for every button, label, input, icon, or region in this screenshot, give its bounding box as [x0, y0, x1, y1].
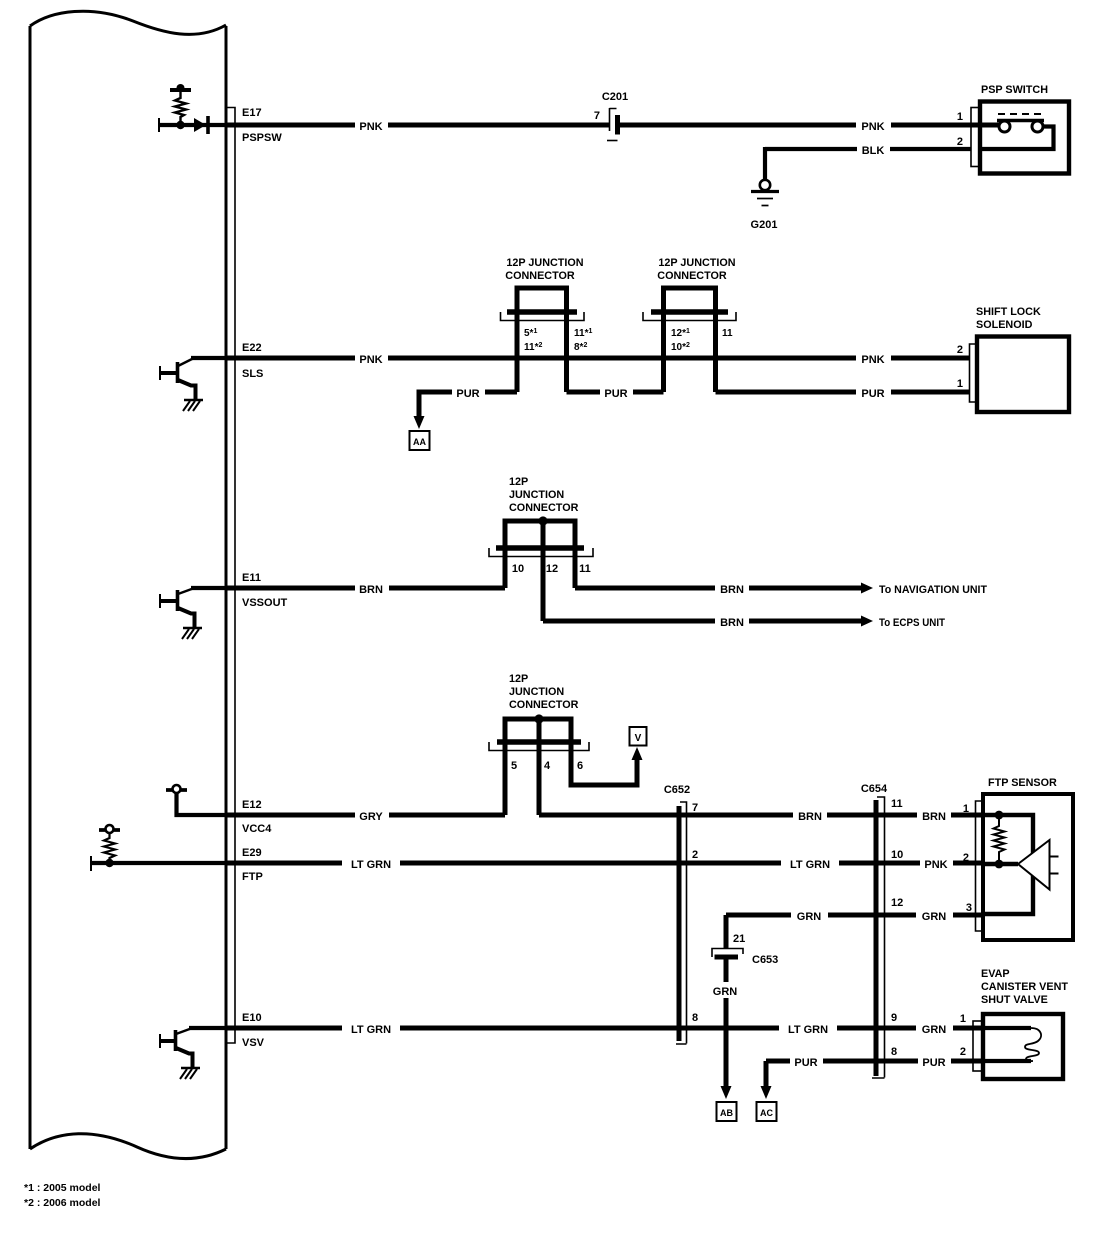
FTP internal junction dot 2 [995, 860, 1004, 869]
svg-text:BRN: BRN [720, 584, 744, 596]
label GRN (row6 right) [916, 1020, 953, 1036]
label PUR (right) [918, 1053, 951, 1069]
label BLK [857, 141, 890, 157]
ground stem G201 [763, 147, 767, 180]
arrowhead to AB [721, 1086, 732, 1099]
12P junction connector J1 staple [517, 288, 567, 392]
label BRN (ecps) [715, 613, 749, 629]
label PUR (AA branch) [452, 384, 485, 400]
svg-text:BRN: BRN [359, 584, 383, 596]
wire PUR J2 right leg to solenoid pin 1 [716, 390, 971, 395]
J4 junction dot [534, 714, 543, 723]
svg-text:C653: C653 [752, 954, 778, 966]
FTP sensor bracket [976, 801, 984, 931]
svg-text:6: 6 [577, 760, 583, 772]
svg-text:1: 1 [957, 111, 963, 123]
svg-text:E10: E10 [242, 1012, 262, 1024]
internal wire E12 [177, 792, 227, 815]
svg-text:CONNECTOR: CONNECTOR [509, 502, 579, 514]
svg-text:BRN: BRN [798, 811, 822, 823]
wire BRN to navigation unit [575, 586, 862, 591]
transistor Q-E11 emitter [178, 608, 195, 628]
label GRN (vertical) [707, 982, 744, 998]
FTP internal junction dot 1 [995, 811, 1004, 820]
12P junction connector J3 staple [505, 521, 575, 588]
ground (E10 emitter) [181, 1067, 200, 1069]
E29 wire tick [90, 856, 92, 871]
svg-text:C654: C654 [861, 783, 888, 795]
svg-text:VSSOUT: VSSOUT [242, 597, 288, 609]
arrowhead navigation [861, 583, 873, 594]
svg-text:GRY: GRY [359, 811, 383, 823]
connector C652 bracket [676, 802, 687, 1044]
arrowhead to V [632, 747, 643, 760]
VCC source circle (E29) [106, 825, 114, 833]
svg-text:E17: E17 [242, 107, 262, 119]
diode (to E17 pin) [194, 118, 206, 132]
connector C653 [712, 949, 743, 958]
internal wire E22 [191, 356, 226, 360]
wire E11 BRN to J3 pin 10 [226, 586, 505, 591]
wire BRN to ECPS unit [543, 619, 862, 624]
svg-text:EVAP: EVAP [981, 968, 1010, 980]
label GRN (right) [916, 907, 953, 923]
svg-text:BRN: BRN [922, 811, 946, 823]
connector C654 bracket [872, 797, 885, 1078]
svg-text:PNK: PNK [359, 354, 382, 366]
svg-text:GRN: GRN [922, 1024, 947, 1036]
wire BLK PSP pin2 to ground [765, 147, 971, 151]
svg-text:C652: C652 [664, 784, 690, 796]
PSP switch box [980, 102, 1069, 174]
J4 center leg [537, 717, 542, 815]
ground eyelet G201 [760, 180, 770, 190]
svg-text:12: 12 [546, 563, 558, 575]
svg-text:12P JUNCTION: 12P JUNCTION [658, 257, 735, 269]
wire PUR vertical to AC [764, 1061, 769, 1087]
svg-text:CONNECTOR: CONNECTOR [505, 270, 575, 282]
svg-text:PNK: PNK [861, 354, 884, 366]
svg-text:PUR: PUR [861, 388, 884, 400]
transistor Q-E22 collector [178, 359, 193, 367]
label LT GRN (row6 left) [342, 1020, 400, 1036]
arrowhead ECPS [861, 616, 873, 627]
node V box [630, 727, 647, 746]
label PNK (row1 left) [355, 117, 388, 133]
svg-text:8: 8 [692, 1012, 698, 1024]
wire C201 to PSP switch pin 1 [618, 123, 1001, 128]
label PUR (row2 right) [856, 384, 891, 400]
node AB box [717, 1102, 737, 1121]
svg-text:2: 2 [692, 849, 698, 861]
EVAP solenoid coil [1025, 1028, 1041, 1061]
transistor Q-E10 base tick [159, 1034, 161, 1048]
svg-text:JUNCTION: JUNCTION [509, 686, 564, 698]
label BRN (row4 right) [917, 807, 951, 823]
svg-text:9: 9 [891, 1012, 897, 1024]
svg-text:1: 1 [957, 378, 963, 390]
transistor Q-E11 base tick [159, 594, 161, 608]
svg-text:PUR: PUR [794, 1057, 817, 1069]
ECM/PCM module box (torn-edge outline) [30, 11, 226, 1158]
svg-text:*2 : 2006 model: *2 : 2006 model [24, 1197, 101, 1209]
svg-text:CONNECTOR: CONNECTOR [509, 699, 579, 711]
VCC source T-bar (E12) [166, 788, 187, 792]
svg-text:1: 1 [960, 1013, 966, 1025]
internal wire E29 [91, 861, 226, 865]
svg-text:C201: C201 [602, 91, 628, 103]
svg-text:8: 8 [891, 1046, 897, 1058]
svg-text:SHIFT LOCK: SHIFT LOCK [976, 306, 1041, 318]
12P junction connector J4 staple [505, 719, 571, 815]
resistor (zigzag) E17 pull-up [175, 90, 186, 125]
label GRN (mid) [791, 907, 828, 923]
svg-text:AB: AB [720, 1108, 733, 1118]
svg-text:PNK: PNK [924, 859, 947, 871]
shift lock solenoid box [977, 337, 1069, 413]
label BRN (row3) [355, 580, 389, 596]
svg-text:AA: AA [413, 437, 426, 447]
transistor Q-E11 base bar [176, 590, 180, 611]
ground (E22 emitter) [184, 399, 203, 401]
svg-text:3: 3 [966, 902, 972, 914]
svg-text:10: 10 [891, 849, 903, 861]
svg-text:10: 10 [512, 563, 524, 575]
svg-text:12P JUNCTION: 12P JUNCTION [506, 257, 583, 269]
label PUR (mid branch) [600, 384, 633, 400]
transistor Q-E10 base bar [174, 1030, 178, 1051]
VCC source circle (E12) [173, 785, 181, 793]
connector C654 line [874, 800, 879, 1076]
svg-text:FTP SENSOR: FTP SENSOR [988, 777, 1057, 789]
FTP triangle ticks [1050, 857, 1059, 874]
transistor Q-E22 base lead [160, 371, 176, 375]
junction dot E29 [105, 859, 113, 867]
FTP internal pin2 wire [983, 862, 1018, 866]
PSP switch internal return wire [982, 127, 1054, 150]
wire GRN horizontal [726, 913, 983, 918]
internal pull-up supply T-bar [170, 88, 191, 92]
label LT GRN (row5 left) [342, 855, 400, 871]
transistor Q-E10 emitter [176, 1048, 193, 1068]
internal wire E10 [189, 1026, 226, 1030]
svg-text:12P: 12P [509, 673, 528, 685]
svg-text:SHUT VALVE: SHUT VALVE [981, 994, 1048, 1006]
svg-text:4: 4 [544, 760, 551, 772]
EVAP coil pin1 wire [983, 1026, 1031, 1030]
label LT GRN (row5 mid) [781, 855, 839, 871]
node AA box [410, 431, 430, 450]
label LT GRN (row6 mid) [779, 1020, 837, 1036]
EVAP canister vent shut valve box [983, 1014, 1063, 1079]
label PNK (row2 left) [355, 350, 388, 366]
svg-text:FTP: FTP [242, 871, 263, 883]
svg-text:E11: E11 [242, 572, 261, 584]
transistor Q-E10 collector [176, 1029, 191, 1035]
label BRN (row4 mid) [793, 807, 827, 823]
svg-text:To ECPS UNIT: To ECPS UNIT [879, 617, 945, 629]
label PNK (row1 right) [856, 117, 891, 133]
svg-text:1: 1 [963, 803, 969, 815]
svg-text:LT GRN: LT GRN [790, 859, 830, 871]
12P junction connector J4 crossbar [497, 739, 581, 744]
transistor Q-E11 collector [178, 589, 193, 595]
arrowhead to AA [414, 416, 425, 429]
wire GRN vertical lower to AB [724, 959, 729, 1087]
transistor Q-E22 emitter [178, 380, 196, 400]
svg-text:V: V [635, 733, 642, 744]
EVAP coil pin2 wire [983, 1059, 1031, 1063]
wire PUR J1 right leg to J2 left leg [567, 390, 664, 395]
PSP switch moving contact bar [997, 119, 1044, 122]
svg-text:7: 7 [692, 802, 698, 814]
label GRY (row4) [355, 807, 389, 823]
svg-text:SLS: SLS [242, 368, 263, 380]
wire PUR row [766, 1059, 983, 1064]
transistor Q-E22 base bar [176, 362, 180, 383]
svg-text:VSV: VSV [242, 1037, 265, 1049]
wire BRN J4 pin4 to FTP sensor pin 1 [539, 813, 983, 818]
svg-text:BRN: BRN [720, 617, 744, 629]
svg-text:*1 : 2005 model: *1 : 2005 model [24, 1182, 101, 1194]
svg-text:GRN: GRN [713, 986, 738, 998]
J3 center leg [541, 519, 546, 621]
12P junction connector J3 crossbar [496, 545, 584, 550]
svg-text:LT GRN: LT GRN [788, 1024, 828, 1036]
FTP sensor element triangle [1018, 840, 1050, 890]
junction dot on E17 internal node [176, 121, 184, 129]
svg-text:PSP SWITCH: PSP SWITCH [981, 84, 1048, 96]
svg-text:GRN: GRN [922, 911, 947, 923]
svg-text:11: 11 [722, 328, 733, 339]
arrowhead to AC [761, 1086, 772, 1099]
internal wire E17 [159, 123, 226, 127]
wire E10 LT GRN to EVAP valve pin 1 [226, 1026, 983, 1031]
svg-text:VCC4: VCC4 [242, 823, 272, 835]
J3 junction dot [538, 516, 547, 525]
PSP switch contact circle 2 [1032, 121, 1043, 132]
ECM connector bracket line [226, 108, 235, 1044]
internal wire E11 [191, 586, 226, 590]
svg-text:11: 11 [579, 563, 591, 575]
connector C652 line [677, 806, 682, 1041]
svg-text:E22: E22 [242, 342, 262, 354]
svg-text:2: 2 [960, 1046, 966, 1058]
FTP internal resistor [994, 815, 1005, 864]
transistor Q-E10 base lead [160, 1039, 174, 1043]
internal base wire tick [158, 118, 160, 132]
svg-text:PUR: PUR [604, 388, 627, 400]
svg-text:7: 7 [594, 110, 600, 122]
svg-text:GRN: GRN [797, 911, 822, 923]
wire PUR J1 left leg to AA [419, 392, 517, 417]
svg-text:LT GRN: LT GRN [351, 859, 391, 871]
ground bars G201 [751, 190, 779, 193]
svg-text:CANISTER VENT: CANISTER VENT [981, 981, 1068, 993]
svg-text:LT GRN: LT GRN [351, 1024, 391, 1036]
12P junction connector J1 crossbar [507, 309, 577, 314]
wire GRN vertical upper [724, 915, 729, 949]
wire E22 PNK to solenoid pin 2 [226, 356, 970, 361]
svg-text:21: 21 [733, 933, 745, 945]
12P junction connector J2 staple [664, 288, 716, 392]
svg-text:E12: E12 [242, 799, 262, 811]
svg-text:PNK: PNK [359, 121, 382, 133]
svg-text:BLK: BLK [862, 145, 885, 157]
svg-text:2: 2 [957, 136, 963, 148]
svg-text:JUNCTION: JUNCTION [509, 489, 564, 501]
transistor Q-E22 base tick [159, 366, 161, 380]
svg-text:12P: 12P [509, 476, 528, 488]
PSP switch dashed travel line [998, 113, 1044, 115]
svg-text:E29: E29 [242, 847, 262, 859]
svg-text:PNK: PNK [861, 121, 884, 133]
supply node blob [177, 84, 185, 92]
svg-text:CONNECTOR: CONNECTOR [657, 270, 727, 282]
svg-text:5: 5 [511, 760, 517, 772]
wire E12 GRY to J4 pin 5 [226, 813, 505, 818]
svg-text:2: 2 [957, 344, 963, 356]
node AC box [757, 1102, 777, 1121]
FTP sensor box [983, 794, 1073, 940]
shift lock solenoid bracket [970, 344, 978, 402]
ground (E11 emitter) [183, 627, 202, 629]
svg-text:To NAVIGATION UNIT: To NAVIGATION UNIT [879, 584, 987, 596]
wire E29 LT GRN to FTP sensor pin 2 [226, 861, 983, 866]
transistor Q-E11 base lead [160, 599, 176, 603]
label PNK (row2 right) [856, 350, 891, 366]
connector C201 [610, 108, 617, 131]
svg-text:AC: AC [760, 1108, 773, 1118]
PSP switch connector bracket [971, 108, 980, 167]
12P junction connector J2 crossbar [651, 309, 728, 314]
wire E17 PNK to C201 [226, 123, 609, 128]
label PNK (row5 right) [920, 855, 953, 871]
label PUR (left) [790, 1053, 823, 1069]
FTP internal loop wire [983, 815, 1033, 914]
resistor (E29 pull-up) [104, 832, 115, 863]
svg-text:12: 12 [891, 897, 903, 909]
svg-text:SOLENOID: SOLENOID [976, 319, 1033, 331]
svg-text:11: 11 [891, 798, 903, 810]
VCC source T-bar (E29) [99, 828, 120, 832]
svg-text:PUR: PUR [922, 1057, 945, 1069]
svg-text:PUR: PUR [456, 388, 479, 400]
label BRN (nav) [715, 580, 749, 596]
svg-text:G201: G201 [751, 219, 778, 231]
PSP switch contact circle 1 [999, 121, 1010, 132]
EVAP valve bracket [973, 1021, 983, 1071]
wire J4 pin 6 to V [571, 742, 637, 785]
svg-text:PSPSW: PSPSW [242, 132, 282, 144]
